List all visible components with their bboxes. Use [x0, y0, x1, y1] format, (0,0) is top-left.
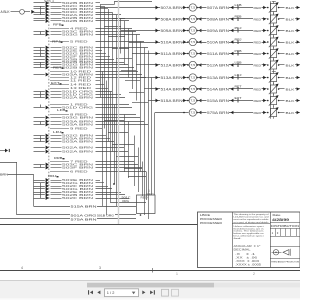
svg-text:503G BRN: 503G BRN — [62, 116, 93, 120]
svg-text:RED: RED — [254, 111, 262, 115]
svg-text:512A BRN: 512A BRN — [207, 63, 230, 67]
svg-text:BLK: BLK — [286, 99, 296, 103]
svg-text:14 RED: 14 RED — [70, 83, 91, 87]
svg-text:13 RED: 13 RED — [70, 86, 91, 90]
svg-text:BLK: BLK — [286, 63, 296, 67]
svg-text:3: 3 — [277, 231, 279, 235]
svg-text:512A BRN: 512A BRN — [161, 63, 184, 67]
svg-text:502A BRN: 502A BRN — [62, 150, 93, 154]
svg-text:509A BRN: 509A BRN — [207, 29, 230, 33]
svg-text:RET: RET — [53, 65, 62, 69]
svg-text:.XXXX ± .0005: .XXXX ± .0005 — [235, 263, 262, 266]
svg-text:LRB: LRB — [235, 60, 242, 64]
svg-text:3: 3 — [99, 266, 101, 270]
svg-text:RFJ: RFJ — [52, 39, 61, 43]
svg-text:BLK: BLK — [286, 111, 296, 115]
svg-text:must not be reproduced in whol: must not be reproduced in whole — [234, 218, 270, 221]
svg-text:LFB: LFB — [57, 108, 66, 112]
svg-text:THIRD ANGLE PROJECTION: THIRD ANGLE PROJECTION — [271, 261, 299, 264]
svg-text:4/28/99: 4/28/99 — [272, 218, 289, 222]
svg-text:LFB: LFB — [235, 3, 242, 7]
svg-text:501B ORG: 501B ORG — [97, 213, 114, 217]
svg-text:575A BRN: 575A BRN — [71, 217, 97, 221]
svg-text:507A BRN: 507A BRN — [161, 6, 184, 10]
svg-text:RED: RED — [254, 17, 262, 21]
svg-text:501C: 501C — [122, 195, 131, 199]
svg-text:BLK: BLK — [286, 76, 296, 80]
svg-text:514A BRN: 514A BRN — [161, 87, 184, 91]
svg-text:503A BRN: 503A BRN — [62, 123, 93, 127]
svg-text:EXT: EXT — [235, 96, 242, 100]
svg-text:514A BRN: 514A BRN — [207, 87, 230, 91]
svg-text:508A BRN: 508A BRN — [207, 17, 230, 21]
svg-text:RRB: RRB — [54, 156, 63, 160]
svg-text:502F BRN: 502F BRN — [62, 196, 93, 200]
svg-text:RED: RED — [254, 52, 262, 56]
svg-text:502B BRN: 502B BRN — [62, 19, 93, 23]
svg-text:502A BRN: 502A BRN — [62, 146, 93, 150]
svg-text:515A BRN: 515A BRN — [161, 99, 184, 103]
svg-text:RED: RED — [254, 29, 262, 33]
svg-text:513A BRN: 513A BRN — [161, 76, 184, 80]
svg-text:LRJ: LRJ — [53, 130, 62, 134]
svg-text:EXT: EXT — [51, 81, 60, 85]
svg-text:503F BRN: 503F BRN — [62, 166, 93, 170]
svg-text:1: 1 — [272, 231, 274, 235]
svg-text:PRB: PRB — [235, 49, 242, 53]
svg-text:503A BRN: 503A BRN — [62, 140, 93, 144]
svg-text:503G BRN: 503G BRN — [62, 33, 93, 37]
svg-text:Date: Date — [273, 213, 282, 217]
svg-text:RED: RED — [254, 87, 262, 91]
svg-text:RFB: RFB — [235, 14, 242, 18]
svg-text:RED: RED — [141, 197, 148, 200]
svg-text:RED: RED — [254, 6, 262, 10]
svg-text:PROCESSED: PROCESSED — [200, 217, 222, 221]
svg-text:9 RED: 9 RED — [70, 127, 88, 131]
svg-text:502B BRN: 502B BRN — [62, 66, 93, 70]
svg-text:7,5: 7,5 — [191, 63, 196, 67]
svg-text:RET: RET — [235, 84, 242, 88]
svg-text:7,5: 7,5 — [191, 40, 196, 44]
svg-text:513A BRN: 513A BRN — [207, 76, 230, 80]
svg-text:BLK: BLK — [286, 87, 296, 91]
svg-text:Link-Belt Construction Co. and: Link-Belt Construction Co. and — [234, 216, 270, 219]
svg-text:6 RED: 6 RED — [70, 170, 88, 174]
svg-text:BLK: BLK — [286, 29, 296, 33]
svg-text:7,5: 7,5 — [191, 111, 196, 115]
svg-text:511A BRN: 511A BRN — [161, 52, 184, 56]
svg-text:509A BRN: 509A BRN — [161, 29, 184, 33]
svg-text:BLK: BLK — [286, 17, 296, 21]
svg-text:This drawing is the property o: This drawing is the property of — [234, 213, 269, 216]
svg-text:7,5: 7,5 — [191, 29, 196, 33]
svg-text:RRJ: RRJ — [48, 174, 57, 178]
svg-text:511A BRN: 511A BRN — [207, 52, 230, 56]
svg-text:7,5: 7,5 — [191, 87, 196, 91]
svg-text:7,5: 7,5 — [191, 99, 196, 103]
svg-text:7,5: 7,5 — [191, 17, 196, 21]
svg-text:DISTRIBUTION: DISTRIBUTION — [271, 225, 299, 228]
svg-text:5 RED: 5 RED — [70, 40, 88, 44]
svg-text:BLK: BLK — [286, 6, 296, 10]
svg-text:LBCE: LBCE — [200, 213, 210, 217]
svg-text:4: 4 — [21, 266, 23, 270]
svg-text:515A BRN: 515A BRN — [207, 99, 230, 103]
svg-text:RED: RED — [254, 63, 262, 67]
svg-text:7,5: 7,5 — [191, 76, 196, 80]
svg-text:ANGULAR ± 1°: ANGULAR ± 1° — [234, 245, 261, 248]
svg-text:A BLK: A BLK — [1, 10, 11, 14]
svg-text:PROCESSED: PROCESSED — [200, 221, 222, 225]
svg-text:BLK: BLK — [286, 52, 296, 56]
svg-text:RED: RED — [254, 40, 262, 44]
svg-text:510A BRN: 510A BRN — [161, 40, 184, 44]
svg-text:2: 2 — [253, 272, 255, 276]
svg-text:RED: RED — [254, 99, 262, 103]
svg-text:BRN: BRN — [0, 172, 8, 176]
svg-text:1 / 2: 1 / 2 — [107, 290, 115, 295]
svg-text:508A BRN: 508A BRN — [161, 17, 184, 21]
svg-text:7,5: 7,5 — [191, 52, 196, 56]
svg-text:515A BRN: 515A BRN — [71, 205, 97, 209]
svg-text:575A BRN: 575A BRN — [207, 111, 230, 115]
svg-text:RED: RED — [254, 76, 262, 80]
svg-text:507A BRN: 507A BRN — [207, 6, 230, 10]
svg-text:501D ORG: 501D ORG — [62, 106, 93, 110]
svg-text:BLK: BLK — [286, 40, 296, 44]
svg-text:1: 1 — [176, 272, 178, 276]
svg-text:RFB: RFB — [53, 22, 62, 26]
svg-text:510A BRN: 510A BRN — [207, 40, 230, 44]
svg-text:11 RED: 11 RED — [70, 79, 91, 83]
svg-text:RED: RED — [147, 193, 154, 196]
svg-text:502A BRN: 502A BRN — [62, 96, 93, 100]
svg-text:DECIMAL: DECIMAL — [234, 248, 252, 251]
svg-text:7,5: 7,5 — [191, 6, 196, 10]
svg-text:fied.: fied. — [234, 238, 243, 240]
svg-text:ORG: ORG — [122, 199, 129, 203]
